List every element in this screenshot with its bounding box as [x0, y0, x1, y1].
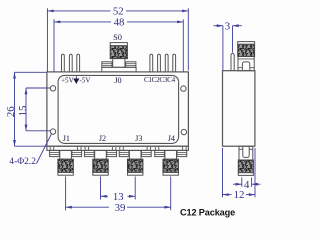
- svg-text:C1C2C3C4: C1C2C3C4: [144, 76, 176, 84]
- svg-text:-5V: -5V: [79, 76, 91, 84]
- svg-text:39: 39: [115, 202, 126, 214]
- svg-text:J1: J1: [63, 134, 70, 143]
- svg-text:J0: J0: [114, 76, 121, 85]
- svg-text:+5V: +5V: [61, 76, 75, 84]
- svg-text:4: 4: [244, 179, 250, 191]
- svg-text:J4: J4: [168, 134, 175, 143]
- svg-text:12: 12: [234, 189, 245, 201]
- svg-text:3: 3: [225, 20, 230, 32]
- svg-text:4-Φ2.2: 4-Φ2.2: [9, 157, 36, 167]
- svg-text:15: 15: [17, 106, 29, 117]
- svg-text:48: 48: [114, 17, 125, 29]
- svg-text:26: 26: [5, 106, 17, 117]
- svg-text:J3: J3: [135, 134, 142, 143]
- svg-text:C12 Package: C12 Package: [180, 207, 235, 217]
- svg-text:S0: S0: [113, 33, 122, 42]
- svg-text:J2: J2: [99, 134, 106, 143]
